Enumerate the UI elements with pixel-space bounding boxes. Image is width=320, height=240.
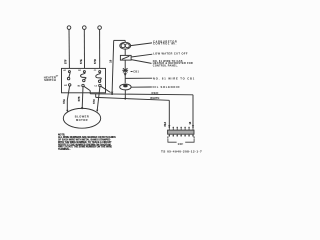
svg-text:CONTROL PANEL.: CONTROL PANEL. — [153, 64, 179, 67]
svg-text:57D: 57D — [94, 59, 97, 64]
svg-text:TERMINAL.: TERMINAL. — [58, 148, 71, 151]
svg-text:CONTROL WI.: CONTROL WI. — [153, 42, 177, 46]
svg-text:16: 16 — [109, 59, 112, 62]
svg-text:TS 05-4940-208-12-1-7: TS 05-4940-208-12-1-7 — [161, 149, 202, 153]
svg-text:LOW WATER CUT OFF: LOW WATER CUT OFF — [153, 52, 188, 56]
svg-text:SWITCH: SWITCH — [44, 78, 56, 82]
svg-text:WHITE: WHITE — [150, 96, 159, 100]
svg-text:57A: 57A — [63, 99, 66, 104]
svg-text:RED: RED — [152, 91, 159, 95]
svg-text:57B: 57B — [78, 96, 81, 101]
svg-text:NO. 81 WIRE TO CB1: NO. 81 WIRE TO CB1 — [153, 77, 195, 81]
svg-text:57F: 57F — [64, 59, 67, 64]
svg-text:81A: 81A — [164, 122, 167, 127]
svg-text:57C: 57C — [93, 99, 96, 104]
svg-text:CB1: CB1 — [133, 71, 139, 74]
svg-text:OIL SOLENOID: OIL SOLENOID — [153, 85, 181, 89]
svg-text:57E: 57E — [80, 59, 83, 64]
svg-text:MOTOR: MOTOR — [76, 118, 88, 122]
svg-text:10F: 10F — [178, 142, 184, 146]
